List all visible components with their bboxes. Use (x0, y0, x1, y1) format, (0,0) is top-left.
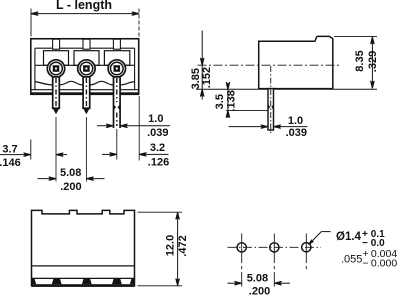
dimension L-length extension line right (dashed) (138, 9, 140, 37)
hole circle 1 (237, 243, 246, 252)
rear view outline with top tabs (32, 210, 135, 286)
dimension 1.0 front line and arrows (97, 124, 170, 128)
hole circle 3 (302, 243, 311, 252)
front view cavity 1 (44, 51, 69, 66)
dimension L-length line and arrows (31, 12, 139, 16)
svg-text:.138: .138 (225, 90, 237, 111)
rear view foot 2 (82, 278, 92, 284)
front view cavity 3 (104, 51, 129, 66)
svg-text:8.35: 8.35 (354, 50, 366, 71)
rear view lower bottom line (32, 277, 135, 279)
rear view left corner post (32, 278, 37, 284)
svg-text:.472: .472 (177, 235, 189, 256)
svg-text:3.2: 3.2 (150, 142, 165, 154)
svg-text:5.08: 5.08 (247, 273, 268, 285)
front view cavity bottom line (35, 64, 135, 66)
dimension 5.08 line and arrows front (38, 177, 105, 181)
svg-text:.200: .200 (249, 286, 270, 296)
dimension 3.85 vertical (200, 31, 204, 100)
svg-text:.329: .329 (367, 51, 379, 72)
front view wavy bottom line (35, 81, 135, 85)
svg-text:L - length: L - length (56, 0, 112, 12)
side view pin (268, 66, 275, 134)
front view top tab 3 (113, 39, 120, 49)
dimension 3.7 line and arrows (0, 153, 67, 157)
front view bottom thin line (32, 89, 139, 91)
dimension 5.08 hole line and arrows (228, 281, 291, 285)
hole pattern horizontal centerline (228, 246, 322, 248)
svg-text:.055: .055 (341, 253, 362, 265)
leader line to hole diameter label (308, 232, 331, 246)
rear view upper bottom line (32, 265, 135, 267)
contact circle 3 (108, 60, 125, 77)
dimension 3.5 bottom extension (226, 109, 268, 111)
svg-text:0.000: 0.000 (371, 258, 397, 270)
svg-text:.039: .039 (147, 127, 168, 139)
svg-text:.152: .152 (201, 67, 213, 88)
hole 1 vertical centerline (241, 234, 243, 287)
side view step top extension (334, 35, 377, 37)
side view horizontal centerline (198, 64, 341, 66)
svg-text:3.5: 3.5 (214, 94, 226, 109)
svg-text:1.0: 1.0 (288, 115, 303, 127)
front view housing outer rectangle (31, 39, 139, 94)
pin 1 centerline extension (55, 117, 57, 182)
svg-text:−: − (362, 258, 368, 270)
front view top tab 1 (53, 39, 60, 49)
front view inner wall left (34, 48, 36, 89)
svg-text:3.7: 3.7 (2, 143, 17, 155)
svg-text:.039: .039 (286, 127, 307, 139)
svg-text:Ø1.4: Ø1.4 (336, 231, 362, 243)
housing right edge extension (dashed) (138, 96, 140, 161)
svg-text:5.08: 5.08 (60, 167, 81, 179)
contact circle 1 (47, 60, 64, 77)
hole circle 2 (270, 243, 279, 252)
pin 2 front (83, 77, 90, 114)
svg-text:.146: .146 (0, 157, 21, 169)
rear view foot 3 (112, 278, 122, 284)
housing left edge extension (30, 140, 32, 160)
contact circle 2 (78, 60, 95, 77)
pin 1 front (53, 77, 60, 114)
dimension 3.5 vertical (226, 82, 230, 118)
dimension 12.0 vertical (176, 212, 180, 286)
dimension 3.2 line and arrows (102, 153, 169, 157)
pin 3 front with width extension (113, 77, 120, 128)
side view body outline (259, 36, 333, 88)
front view inner wall right (134, 48, 136, 89)
dimension 12.0 bottom extension (138, 285, 183, 287)
rear view bottom band (32, 284, 135, 287)
svg-text:.200: .200 (60, 181, 81, 193)
side view pcb plane line (196, 88, 377, 90)
svg-text:1.0: 1.0 (148, 113, 163, 125)
dimension L-length extension line left (30, 9, 32, 37)
rear view foot 1 (52, 278, 62, 284)
svg-text:.126: .126 (148, 157, 169, 169)
pin 2 centerline extension (85, 117, 87, 182)
front view top tab 2 (83, 39, 90, 49)
pin 3 centerline extension (116, 129, 118, 160)
dimension 12.0 top extension (138, 211, 183, 213)
rear view right corner post (130, 278, 135, 284)
front view inner top line (35, 47, 135, 49)
hole 3 vertical centerline (305, 234, 307, 270)
front view cavity 2 (74, 51, 99, 66)
dimension 1.0 side line and arrows (229, 125, 308, 129)
front view housing bottom band (30, 92, 139, 95)
svg-text:12.0: 12.0 (165, 235, 177, 256)
dimension 8.35 vertical (371, 37, 375, 88)
hole 2 vertical centerline (273, 234, 275, 287)
